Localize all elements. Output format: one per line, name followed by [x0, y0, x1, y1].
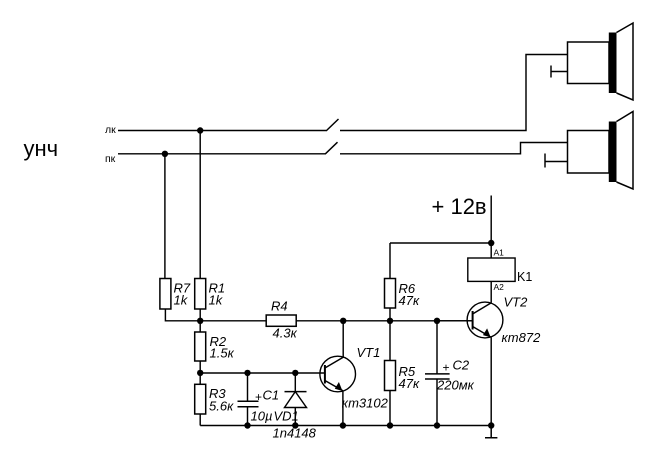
capacitor C1 top lead	[247, 373, 249, 401]
transistor VT2 emitter arrow	[483, 328, 491, 337]
svg-text:кт872: кт872	[502, 330, 542, 345]
capacitor C2 bottom lead	[436, 379, 438, 426]
speaker LS1 magnet bar	[609, 33, 617, 94]
diode VD1 top lead	[294, 373, 296, 392]
resistor R5 body	[385, 361, 396, 391]
wire R1 bottom to junction	[199, 309, 201, 321]
relay K1 coil box	[468, 258, 515, 281]
wire R6 bottom lead	[389, 308, 391, 321]
ground symbol	[485, 426, 497, 438]
node VD1 bottom	[292, 422, 298, 428]
node R2/R3 junction	[197, 370, 203, 376]
svg-text:+ 12в: + 12в	[432, 194, 487, 219]
transistor VT1 circle	[320, 356, 356, 392]
svg-text:4.3к: 4.3к	[273, 326, 298, 341]
wire relay K1 to VT2 collector	[490, 281, 492, 302]
svg-text:+: +	[443, 361, 450, 375]
svg-text:1.5к: 1.5к	[210, 346, 235, 361]
svg-text:C2: C2	[453, 358, 470, 373]
capacitor C1 plates	[238, 401, 259, 406]
transistor VT2 collector stroke	[473, 303, 492, 314]
resistor R6 body	[385, 279, 396, 309]
svg-text:1n4148: 1n4148	[273, 426, 317, 441]
wire main node line left (R1R7 junction to R4)	[200, 320, 266, 322]
svg-text:220мк: 220мк	[436, 378, 475, 393]
wire VT1 collector up	[342, 321, 344, 357]
transistor VT1 collector stroke	[325, 357, 343, 368]
resistor R4 body	[266, 315, 296, 326]
svg-text:пк: пк	[105, 153, 116, 165]
node C1 bottom	[244, 422, 250, 428]
wire пк line right segment to speaker 2	[340, 143, 568, 154]
wire пк line left segment	[118, 153, 325, 155]
wire R6 top lead	[389, 243, 391, 279]
wire VT2 base	[437, 320, 473, 322]
wire R3 top lead	[199, 373, 201, 384]
svg-text:47к: 47к	[399, 376, 420, 391]
transistor VT1 emitter arrow	[335, 382, 343, 391]
transistor VT2 emitter stroke	[473, 327, 491, 338]
wire R5 top lead	[389, 321, 391, 361]
svg-text:1k: 1k	[174, 293, 189, 308]
speaker LS1 terminal stub	[551, 66, 568, 78]
svg-text:47к: 47к	[399, 293, 420, 308]
svg-text:A1: A1	[494, 248, 505, 258]
speaker LS2 magnet bar	[609, 122, 617, 183]
resistor R2 body	[195, 332, 206, 361]
wire +12V rail to R6	[390, 242, 491, 244]
svg-text:+: +	[255, 390, 262, 404]
transistor VT2 base bar	[472, 311, 474, 330]
svg-text:A2: A2	[494, 282, 505, 292]
speaker LS1 box	[568, 42, 610, 84]
node C2 junction	[434, 318, 440, 324]
svg-text:VT1: VT1	[357, 345, 381, 360]
switch S1 blade	[326, 119, 339, 131]
node лк junction	[197, 127, 203, 133]
svg-text:5.6к: 5.6к	[209, 399, 234, 414]
capacitor C2 top lead	[436, 321, 438, 374]
wire пк junction down to R7	[164, 154, 166, 279]
node R5 bottom	[387, 422, 393, 428]
wire R3 bottom lead	[199, 414, 201, 426]
transistor VT1 emitter stroke	[325, 381, 343, 391]
wire R7 bottom to junction	[165, 309, 200, 321]
wire VT1 emitter down	[342, 391, 344, 426]
node пк junction	[162, 151, 168, 157]
node R6/R5 junction	[387, 318, 393, 324]
wire R2 top lead	[199, 321, 201, 332]
node C1 top junction	[244, 370, 250, 376]
svg-text:кт3102: кт3102	[342, 396, 389, 411]
svg-text:лк: лк	[105, 124, 116, 136]
svg-text:10µ: 10µ	[251, 409, 273, 424]
resistor R3 body	[195, 384, 206, 414]
wire R5 bottom lead	[389, 391, 391, 426]
transistor VT1 base bar	[324, 365, 326, 384]
capacitor C1 bottom lead	[247, 407, 249, 426]
wire bias node line (R2 to VT1 base)	[200, 372, 325, 374]
svg-text:VT2: VT2	[504, 295, 529, 310]
svg-text:R4: R4	[271, 299, 288, 314]
capacitor C2 plates	[425, 374, 450, 379]
wire лк line left segment	[118, 130, 326, 132]
speaker LS2 cone	[617, 112, 634, 190]
resistor R1 body	[195, 279, 206, 310]
speaker LS2 box	[568, 131, 610, 174]
switch S2 blade	[325, 142, 338, 154]
diode VD1 cathode bar	[285, 391, 307, 393]
node VT2 emitter bottom	[488, 422, 494, 428]
wire ground rail	[200, 425, 491, 427]
speaker LS2 terminal stub	[545, 154, 568, 168]
node VT1 collector junction	[340, 318, 346, 324]
svg-text:1k: 1k	[209, 293, 224, 308]
resistor R7 body	[160, 279, 171, 310]
node VT1 emitter bottom	[340, 422, 346, 428]
node R1/R7/R2/R4 junction	[197, 318, 203, 324]
wire R2 bottom lead	[199, 361, 201, 373]
wire лк line right segment to speaker 1	[340, 55, 568, 131]
wire лк junction down to R1	[199, 131, 201, 279]
svg-text:K1: K1	[517, 270, 532, 284]
node C2 bottom	[434, 422, 440, 428]
speaker LS1 cone	[617, 23, 634, 100]
wire +12V rail down	[490, 196, 492, 259]
diode VD1 bottom lead	[294, 408, 296, 426]
diode VD1 triangle	[285, 392, 307, 408]
svg-text:C1: C1	[263, 388, 280, 403]
wire main node line right (R4 to VT2 base)	[296, 320, 472, 322]
transistor VT2 circle	[467, 302, 503, 338]
node VD1 top junction	[292, 370, 298, 376]
wire VT2 emitter down	[490, 337, 492, 425]
svg-text:унч: унч	[24, 136, 59, 161]
node +12V junction	[488, 240, 494, 246]
